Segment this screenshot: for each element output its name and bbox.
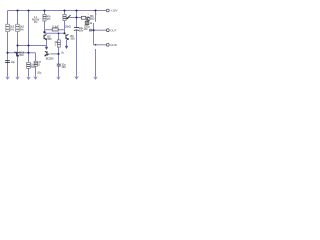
node 58-53 (57, 53, 59, 55)
svg-text:16V: 16V (79, 29, 84, 33)
svg-text:550: 550 (70, 37, 75, 41)
transistor Q4 circle (86, 17, 90, 21)
wire output emitter down (93, 23, 95, 45)
ground 7 (6, 76, 9, 79)
capacitor C feedback box (52, 28, 58, 31)
wire node row y45 (18, 46, 47, 47)
red pin marks (81, 13, 98, 16)
node 95-44 (95, 44, 97, 46)
transistor Q2 (66, 34, 69, 39)
junction dots (6, 9, 96, 55)
node 58-33 (58, 33, 60, 35)
node rail-95 (94, 9, 96, 11)
svg-text:0.1μF: 0.1μF (52, 24, 59, 28)
node 17-45 (16, 44, 18, 46)
wire output 2 (94, 44, 107, 46)
wire left column 2 (17, 11, 19, 77)
wire top supply rail (8, 10, 108, 12)
svg-text:550: 550 (90, 16, 95, 20)
wire left column 1 (7, 11, 9, 77)
svg-text:Ω: Ω (38, 63, 40, 67)
svg-text:50C: 50C (19, 53, 24, 57)
wire output 1 (91, 29, 106, 31)
wire collector column R3 (44, 11, 46, 34)
capacitor C middle chain (57, 64, 61, 66)
node 64-33 (63, 32, 65, 34)
resistor R7 (col 35) (34, 61, 37, 66)
svg-text:16V: 16V (84, 28, 88, 31)
wire trimmer wiper link (69, 17, 82, 19)
IC box output (82, 16, 86, 19)
node 28-45 (27, 44, 29, 46)
svg-text:+10V: +10V (111, 9, 118, 13)
node rail-28 (27, 9, 29, 11)
capacitor C left bypass (5, 61, 10, 63)
wire bias column (28, 11, 30, 77)
resistor R2 (left col 2) (16, 24, 20, 31)
terminal +10V (106, 9, 117, 13)
node 28-52 (27, 52, 29, 54)
node rail-76 (75, 9, 77, 11)
terminal OUT1 (106, 28, 116, 32)
wire collector column R4 (64, 11, 66, 34)
output coupling cap plates (90, 29, 91, 32)
ground 17 (16, 76, 19, 79)
svg-text:550: 550 (47, 37, 52, 41)
transistor Q1 (44, 34, 47, 39)
resistor R3 (43, 14, 46, 21)
wire Q3 base row (50, 53, 58, 55)
node 7-52 (6, 52, 8, 54)
ground 35 (34, 76, 37, 79)
wire ground column right (95, 49, 97, 76)
terminal OUT2 (106, 43, 117, 47)
wire Q2 emitter stub (66, 39, 68, 45)
labels (tiny grey value texts) (10, 14, 95, 74)
svg-text:16V: 16V (61, 65, 66, 69)
resistor R5 middle (57, 40, 60, 47)
ground arrow Q2 emitter (65, 45, 68, 48)
svg-text:5%: 5% (20, 28, 24, 32)
node rail-44 (43, 9, 45, 11)
wire feedback cap row (45, 29, 65, 31)
ground 58 (57, 76, 60, 79)
wire middle resistor chain (58, 33, 60, 76)
wire base link row (45, 32, 65, 34)
resistor R4 (63, 14, 66, 20)
transistor Q5 (left input device) (14, 52, 18, 57)
ground arrows bottom (6, 76, 97, 80)
wire node row y52 (8, 52, 36, 54)
svg-text:10μ: 10μ (37, 70, 42, 74)
node 93-30 (92, 29, 94, 31)
transistor Q3 (45, 51, 50, 56)
node rail-17 (16, 9, 18, 11)
resistor R6 (col 28) (27, 62, 31, 68)
svg-text:OUT: OUT (110, 28, 117, 32)
svg-text:20kΩ: 20kΩ (65, 24, 71, 28)
ground arrow mid (node y45) (45, 47, 48, 50)
node 76-17 (75, 16, 77, 18)
ground 95 (94, 76, 97, 79)
wire Q1 emitter down (46, 40, 48, 46)
ground 76 (75, 76, 78, 79)
wire output transistor column (95, 11, 97, 22)
wire emitter resistor column (35, 53, 37, 76)
polarized capacitor C decoupling plates (74, 28, 79, 31)
trimmer arrow on R4 (67, 15, 71, 19)
resistor R1 (left col 1) (6, 24, 10, 31)
node rail-64 (63, 9, 65, 11)
svg-text:10μ: 10μ (11, 60, 16, 64)
component bodies (5, 14, 90, 68)
svg-text:5%: 5% (10, 28, 14, 32)
svg-text:BC550: BC550 (46, 56, 54, 60)
wire decoupling column (76, 11, 78, 76)
box below Q4 (85, 21, 89, 25)
ground 28 (27, 76, 30, 79)
svg-text:GND: GND (110, 43, 118, 47)
node 44-33 (43, 31, 45, 33)
